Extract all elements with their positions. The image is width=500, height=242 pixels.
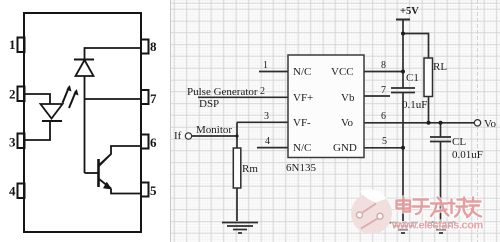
wire monitor node vertical — [236, 122, 238, 148]
pin 8 pad — [141, 40, 149, 54]
wire +5V drop — [402, 20, 404, 34]
junction dot RL/Vo — [427, 121, 431, 125]
ground symbol under C1 rail — [388, 223, 418, 234]
wire: emitter to pin 5 — [111, 189, 141, 194]
pin 7 pad — [141, 90, 149, 104]
light arrow 2 — [69, 89, 79, 108]
pin 1 pad — [18, 38, 25, 53]
transistor Q1 emitter stroke with arrow — [99, 179, 111, 189]
photodiode D1 (triangle) — [76, 60, 94, 76]
wire VCC rail down to C1 — [402, 34, 404, 89]
烧 — [449, 198, 469, 217]
junction dot pin8 — [401, 70, 405, 74]
wire: LED cathode to pin 3 — [24, 121, 50, 140]
wire pin4 stub — [257, 147, 288, 149]
sheet border left (dashed) — [170, 0, 172, 242]
sheet border right (dashed) — [477, 0, 479, 242]
LED cathode bar — [42, 120, 62, 122]
wire Rm to ground — [236, 188, 238, 221]
capacitor CL plates — [430, 136, 451, 138]
wire If input — [192, 135, 237, 137]
wire +5V rail to RL — [403, 34, 429, 59]
junction dot If/monitor — [235, 134, 238, 137]
wire pin7 Vb stub — [364, 95, 390, 97]
pin 4 pad — [18, 184, 25, 199]
wire: base lead — [85, 172, 98, 174]
wire pin8 VCC — [364, 71, 403, 73]
wire C1 to ground rail — [402, 93, 404, 222]
pin 2 pad — [18, 87, 25, 102]
友 — [467, 198, 482, 218]
transistor Q1 base bar — [97, 159, 100, 187]
grid background of schematic area — [170, 0, 500, 242]
light arrow 1 — [63, 85, 72, 103]
电 — [397, 198, 411, 212]
pin 6 pad — [141, 135, 149, 149]
junction dot VCC rail — [401, 32, 405, 36]
wire: photodiode anode down to base rail — [84, 76, 86, 173]
wire: pin 2 to LED anode — [24, 94, 50, 104]
wire CL to ground — [440, 123, 442, 137]
wire pin2 from pulse generator — [198, 96, 288, 98]
wire: anode rail to pin 7 — [85, 98, 142, 100]
LED triangle — [41, 104, 63, 119]
resistor Rm — [233, 148, 241, 188]
resistor RL — [424, 58, 433, 97]
transistor Q1 collector stroke — [99, 154, 111, 166]
svg-text:www.elecfans.com: www.elecfans.com — [391, 220, 483, 232]
发 — [431, 198, 449, 217]
terminal circle If — [185, 133, 191, 139]
junction dot pin5/ground rail — [401, 146, 405, 150]
ground symbol under Rm — [222, 223, 258, 234]
子 — [413, 200, 430, 215]
pin 5 pad — [141, 183, 149, 197]
package body outline — [24, 13, 141, 232]
wire pin1 stub — [259, 71, 288, 73]
photodiode D1 (cathode bar) — [74, 59, 94, 61]
wire RL bottom to Vo net — [428, 97, 430, 123]
capacitor C1 plates — [391, 87, 415, 89]
wire pin3 — [237, 121, 288, 123]
watermark glyph white halo — [397, 198, 482, 218]
wire pin6 Vo — [364, 122, 475, 124]
ground symbol under CL — [426, 223, 456, 234]
LEFT: opto-coupler package diagram — [0, 0, 170, 242]
wire pin5 GND — [364, 147, 403, 149]
IC U1 6N135 body — [288, 55, 364, 158]
wire: collector to pin 6 — [99, 146, 141, 165]
wire: photodiode cathode to pin 8 — [85, 48, 142, 60]
+5V power bar — [396, 19, 410, 21]
logo circle — [351, 193, 392, 234]
pin 3 pad — [18, 134, 25, 149]
junction dot CL/Vo — [439, 121, 443, 125]
terminal circle Vo — [474, 120, 480, 126]
